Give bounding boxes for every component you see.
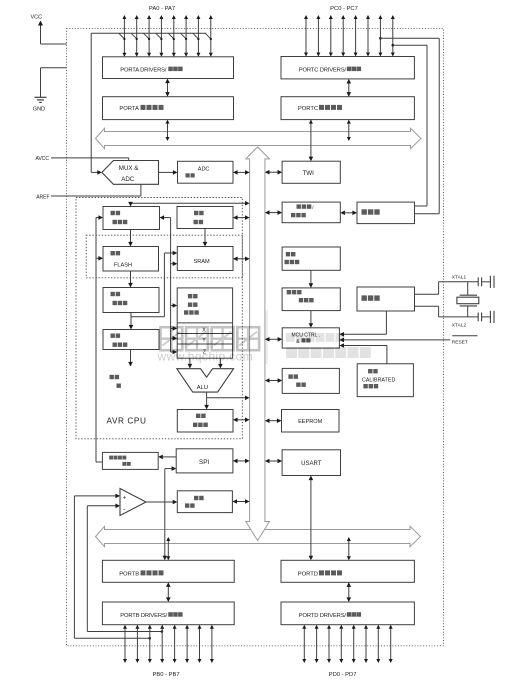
block timer oscillator: [357, 202, 415, 224]
svg-text:ADC: ADC: [121, 176, 135, 183]
AREF pin: [36, 184, 141, 200]
wire USART to PORTD interface: [309, 476, 314, 561]
crystal: [457, 282, 479, 317]
wire PC7 to timer oscillator: [392, 44, 428, 206]
comparator analog: [120, 489, 146, 516]
block PORTB digital interface: [102, 560, 234, 582]
block PORTA DRIVERS buffers: [103, 57, 234, 79]
watermark hqchip logo text: [157, 327, 260, 363]
svg-text:TWI: TWI: [303, 170, 315, 177]
svg-text:MUX &: MUX &: [119, 165, 139, 172]
wire decoder to control lines: [128, 350, 133, 367]
svg-text:AVR CPU: AVR CPU: [107, 416, 147, 425]
svg-text:PB0 - PB7: PB0 - PB7: [153, 672, 180, 678]
svg-text:PORTD: PORTD: [298, 571, 318, 577]
outer dotted chip boundary: [67, 29, 444, 646]
wire PORTC drivers to digital interface: [347, 79, 352, 97]
wire indirect addressing to PC SRAM and registers: [160, 215, 178, 354]
block program counter: [103, 207, 160, 230]
wire bus to PORTD interface: [347, 537, 351, 560]
wire bus to program counter: [128, 201, 249, 207]
control lines label: [110, 375, 121, 388]
wire PORTB interface to drivers: [166, 582, 171, 602]
block PORTC digital interface: [281, 97, 414, 120]
block interrupt unit: [282, 368, 339, 393]
XTAL2 label: [452, 322, 467, 328]
PORTA pin lines: [122, 15, 212, 57]
svg-text:RESET: RESET: [452, 339, 468, 345]
dashed memory section boundary: [86, 235, 242, 278]
svg-text:GND: GND: [33, 106, 45, 112]
block MCU control and timing: [282, 328, 339, 348]
wire bus to TWI: [265, 170, 282, 175]
block PORTB DRIVERS buffers: [102, 602, 234, 625]
block status register: [177, 410, 233, 433]
svg-text:AREF: AREF: [36, 194, 49, 200]
block PORTD DRIVERS buffers: [281, 602, 414, 625]
wire PORTC interface to TWI: [309, 120, 314, 162]
watermark faint tagline: [286, 333, 371, 358]
block instruction decoder: [103, 330, 159, 350]
svg-text:XTAL1: XTAL1: [452, 274, 467, 280]
AVCC pin: [36, 156, 129, 162]
block SPI: [176, 449, 233, 473]
block programming logic: [102, 452, 158, 469]
svg-text:XTAL2: XTAL2: [452, 322, 467, 328]
svg-text:PORTA DRIVERS/: PORTA DRIVERS/: [120, 67, 167, 73]
PA0 - PA7 label: [149, 6, 175, 12]
block ADC interface: [178, 161, 234, 183]
svg-text:PA0 - PA7: PA0 - PA7: [149, 6, 175, 12]
wire bus to EEPROM: [265, 418, 282, 423]
wire mux to ADC interface: [159, 170, 178, 175]
wire bus to USART: [265, 459, 282, 464]
block TWI: [282, 161, 340, 183]
wire calibrated oscillator to MCU control: [339, 343, 387, 364]
svg-text:PORTD DRIVERS/: PORTD DRIVERS/: [299, 613, 347, 619]
wire bus to timers: [265, 210, 282, 215]
wire XTAL2 to oscillator: [415, 306, 479, 317]
block watchdog timer: [282, 288, 340, 311]
wire status register to bus: [233, 418, 250, 423]
dashed AVR CPU boundary: [76, 198, 242, 439]
block EEPROM: [282, 410, 340, 433]
svg-text:CALIBRATED: CALIBRATED: [362, 377, 396, 383]
VCC pin: [31, 14, 67, 44]
wire PORTA interface to bus: [166, 120, 170, 141]
wire comparator interface to bus: [232, 499, 249, 504]
svg-text:FLASH: FLASH: [114, 262, 132, 268]
wire comparator inputs from PB2 PB3: [74, 494, 163, 640]
block SRAM: [177, 247, 233, 271]
PORTB pin lines: [123, 625, 214, 663]
svg-text:-: -: [123, 506, 125, 513]
wire bus to interrupt unit: [265, 378, 282, 383]
wire stack pointer to SRAM: [203, 229, 208, 247]
wire XTAL1 to oscillator: [415, 282, 479, 295]
wire RESET to MCU control: [339, 338, 450, 343]
GND pin: [33, 68, 67, 113]
svg-text:PORTC DRIVERS/: PORTC DRIVERS/: [299, 67, 347, 73]
svg-text:VCC: VCC: [31, 14, 43, 20]
svg-text:EEPROM: EEPROM: [298, 419, 323, 425]
capacitor at XTAL1: [478, 276, 494, 288]
block internal calibrated oscillator: [357, 364, 413, 397]
wire SRAM to bus: [233, 257, 250, 262]
wire PC6 to timer oscillator: [379, 37, 439, 214]
alu ALU: [177, 369, 234, 392]
top horizontal data bus: [96, 128, 422, 148]
wire registers to ALU: [188, 358, 223, 368]
wire PORTD interface to drivers: [347, 582, 352, 602]
wire SPI to PORTB interface: [163, 466, 177, 560]
svg-text:www.hqchip.com: www.hqchip.com: [157, 350, 254, 364]
bottom horizontal data bus: [96, 526, 421, 546]
wire ADC interface to bus: [233, 170, 250, 175]
wire PORTC interface to bus: [347, 120, 351, 141]
svg-text:.: .: [204, 496, 205, 501]
wire oscillator to MCU control: [339, 311, 386, 337]
wire flash to instruction register: [128, 271, 133, 288]
wire watchdog to MCU control: [309, 311, 314, 328]
svg-text:USART: USART: [301, 461, 322, 467]
block comparator interface: [177, 491, 232, 513]
svg-text:AVCC: AVCC: [36, 156, 50, 162]
wire ALU to status register and bus: [204, 392, 249, 409]
wire SPI to bus: [233, 459, 250, 464]
wire PORTA drivers to digital interface: [165, 79, 170, 97]
svg-text:SRAM: SRAM: [194, 259, 211, 265]
svg-text:PD0 - PD7: PD0 - PD7: [329, 672, 357, 678]
central vertical data bus: [246, 147, 270, 541]
wire stack pointer to bus: [233, 215, 250, 220]
block general purpose registers with X Y Z: [177, 288, 232, 358]
wire program counter to flash: [128, 230, 133, 247]
svg-text:ADC: ADC: [198, 167, 210, 173]
block PORTD digital interface: [281, 560, 414, 582]
AVR CPU label: [107, 416, 147, 425]
RESET label with overline: [452, 336, 478, 346]
block program flash: [103, 247, 159, 272]
svg-text:PC0 - PC7: PC0 - PC7: [330, 6, 358, 12]
PC0 - PC7 label: [330, 6, 358, 12]
PD0 - PD7 label: [329, 672, 357, 678]
svg-text:MCU CTRL .: MCU CTRL .: [292, 332, 320, 338]
PORTD pin lines: [302, 625, 392, 663]
svg-text:PORTB: PORTB: [119, 571, 139, 577]
PB0 - PB7 label: [153, 672, 180, 678]
wire comparator to comparator interface: [146, 500, 177, 505]
ADC mux feed line to PORTA pins: [91, 33, 212, 175]
watermark separator bar: [266, 310, 268, 364]
wire internal oscillator to watchdog: [309, 270, 314, 288]
block internal oscillator: [282, 247, 340, 270]
block PORTA digital interface: [103, 97, 234, 120]
svg-text:PORTB DRIVERS/: PORTB DRIVERS/: [120, 613, 167, 619]
svg-text:ALU: ALU: [197, 385, 208, 391]
svg-text:+: +: [123, 496, 127, 502]
capacitor at XTAL2: [478, 311, 494, 323]
XTAL1 label: [452, 274, 467, 280]
svg-text:PORTC: PORTC: [298, 106, 318, 112]
block stack pointer: [177, 207, 233, 229]
block main oscillator: [357, 287, 415, 311]
wire bus to PORTB interface: [166, 537, 170, 560]
block USART: [282, 450, 340, 476]
wire instruction register to decoder and addressing: [129, 251, 178, 330]
block timers counters: [282, 202, 340, 223]
mux MUX and ADC: [102, 161, 159, 185]
wire bus to MCU control: [265, 337, 282, 342]
wire left feed to PC flash and programming logic: [96, 215, 103, 462]
block instruction register: [103, 288, 159, 313]
svg-text:SPI: SPI: [199, 459, 209, 466]
wire timers to oscillator: [340, 211, 357, 216]
svg-text:PORTA: PORTA: [119, 106, 139, 112]
block PORTC DRIVERS buffers: [281, 57, 414, 79]
PORTC pin lines: [304, 15, 395, 57]
wire SPI to programming logic: [158, 455, 176, 460]
